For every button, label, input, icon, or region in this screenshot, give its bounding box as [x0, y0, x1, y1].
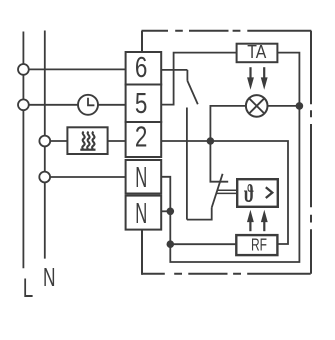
svg-text:N: N: [43, 262, 56, 292]
terminal box N2: [126, 196, 162, 230]
N supply rail: [44, 31, 46, 259]
svg-text:6: 6: [135, 52, 148, 84]
mechanical link S2 to thermostat: [216, 190, 237, 193]
clamp terminal circle on L rail (to 5): [18, 99, 29, 110]
RF receiver box: [236, 235, 277, 256]
wire heater to terminal 2: [108, 140, 126, 142]
device boundary right edge (dash-dot): [310, 31, 312, 274]
terminal box 6: [126, 52, 162, 85]
wire terminal 6 to switch contact: [161, 69, 187, 71]
switch S1 (clock contact) upper stub: [186, 70, 188, 81]
wire L to clock to terminal 5: [23, 104, 125, 106]
wire terminal N2 to node: [161, 210, 170, 212]
TA box: [237, 42, 278, 62]
clamp terminal circle on L rail (to 6): [18, 64, 29, 75]
wire terminal 5 riser to TA: [161, 53, 236, 105]
device boundary top edge (dash-dot): [142, 30, 312, 32]
clamp terminal circle on N rail (to heater): [39, 136, 50, 147]
L supply rail: [22, 32, 24, 269]
device boundary top-left solid corner: [141, 31, 143, 52]
svg-text:RF: RF: [251, 235, 267, 255]
switch S2 (thermostat contact) blade: [212, 174, 223, 208]
junction node N / RF left: [167, 240, 175, 248]
arrows TA to lamp (down): [248, 67, 268, 88]
terminal box 5: [126, 85, 162, 123]
wire terminal N1 riser: [161, 177, 170, 212]
device boundary bottom-left solid corner: [141, 230, 143, 275]
svg-text:2: 2: [135, 121, 148, 153]
lamp (indicator) symbol: [246, 95, 268, 117]
svg-text:N: N: [135, 162, 147, 194]
svg-text:5: 5: [135, 88, 148, 120]
clock (time switch) symbol: [78, 95, 98, 115]
junction node N1/N2: [167, 208, 175, 216]
switch S1 lower contact wire: [186, 108, 188, 220]
junction node at terminal2 wire / lamp wire: [207, 137, 215, 145]
wire S1 to S2 pivot: [187, 208, 212, 220]
wire N node down and around to lamp/TA: [170, 53, 299, 262]
wire node to RF left: [170, 243, 236, 245]
svg-text:N: N: [135, 198, 147, 230]
heater (heating element) box: [67, 127, 107, 154]
terminal box N1: [126, 160, 162, 194]
svg-text:L: L: [23, 273, 34, 303]
wire lamp right to N riser: [268, 105, 300, 107]
arrows RF to thermostat (up): [248, 211, 268, 231]
wire lamp left to node: [210, 106, 246, 141]
wire terminal 2 to RF right side: [161, 141, 288, 244]
terminal box 2: [126, 122, 162, 157]
wire N to terminal N1: [45, 176, 126, 178]
svg-text:ϑ: ϑ: [244, 181, 255, 208]
svg-text:TA: TA: [247, 42, 266, 62]
junction node at lamp / N riser: [296, 102, 304, 110]
switch S1 blade: [187, 81, 197, 104]
device boundary bottom edge (dash-dot): [142, 273, 311, 275]
thermostat box U1: [237, 179, 278, 208]
switch S2 fixed contact: [210, 141, 228, 182]
wire N to heater: [45, 140, 68, 142]
wire L to terminal 6: [23, 68, 125, 70]
clamp terminal circle on N rail (to N1): [39, 172, 50, 183]
